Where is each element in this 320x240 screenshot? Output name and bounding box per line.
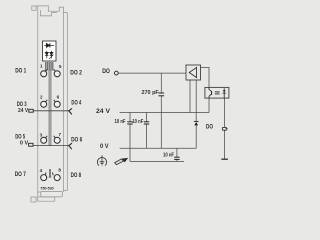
- svg-text:7: 7: [59, 132, 62, 137]
- svg-text:DO 8: DO 8: [71, 172, 82, 179]
- svg-text:DO 2: DO 2: [70, 70, 82, 77]
- svg-text:0 V: 0 V: [20, 140, 28, 146]
- svg-text:10 nF: 10 nF: [163, 152, 174, 158]
- svg-text:10 nF: 10 nF: [132, 119, 143, 125]
- svg-text:3: 3: [40, 132, 43, 137]
- svg-text:2: 2: [40, 94, 43, 99]
- svg-text:DO: DO: [206, 123, 213, 130]
- svg-text:5: 5: [59, 64, 62, 69]
- svg-text:8: 8: [58, 168, 61, 173]
- svg-text:DO: DO: [102, 68, 110, 75]
- svg-text:1: 1: [40, 64, 43, 69]
- svg-text:DO 6: DO 6: [71, 137, 82, 144]
- svg-text:4: 4: [40, 168, 43, 173]
- svg-text:10 nF: 10 nF: [115, 119, 126, 125]
- svg-text:750-530: 750-530: [40, 187, 54, 191]
- svg-text:DO 1: DO 1: [15, 68, 26, 75]
- svg-text:DO 7: DO 7: [15, 171, 26, 178]
- svg-text:270 pF: 270 pF: [142, 90, 159, 96]
- svg-text:0 V: 0 V: [100, 143, 109, 150]
- svg-text:DO 4: DO 4: [71, 100, 81, 107]
- svg-text:24 V: 24 V: [18, 108, 28, 114]
- svg-text:6: 6: [57, 94, 60, 99]
- svg-text:24 V: 24 V: [96, 108, 111, 115]
